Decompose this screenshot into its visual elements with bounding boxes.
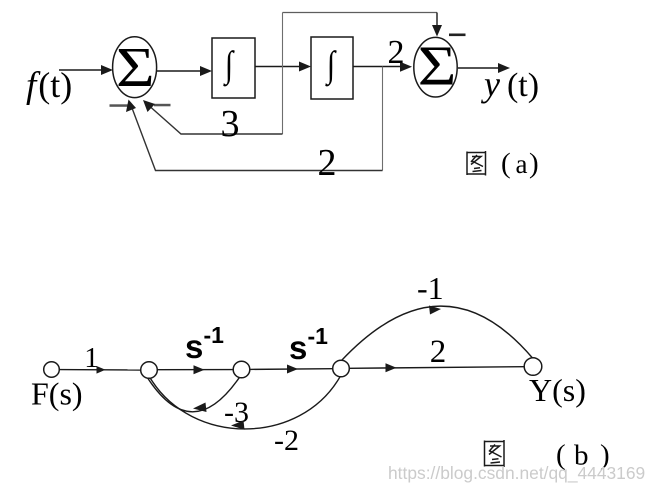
svg-text:F(s): F(s)	[31, 376, 83, 412]
node N5 Y(s)	[524, 358, 542, 376]
svg-text:-1: -1	[417, 270, 444, 306]
svg-text:-2: -2	[274, 424, 299, 457]
wire summer S1 to integrator block B1	[157, 66, 212, 76]
svg-text:a: a	[516, 149, 528, 179]
svg-text:https://blog.csdn.net/qq_44431: https://blog.csdn.net/qq_44431690	[388, 463, 645, 483]
svg-text:1: 1	[84, 342, 99, 374]
branch N2 to N3 gain s^-1	[157, 369, 233, 371]
wire B1 to B2	[255, 62, 311, 72]
minus sign top right of summer U2	[449, 34, 466, 37]
wire feedback 3 path	[146, 103, 283, 134]
wire feedback 2 bottom path	[131, 104, 383, 171]
wire output arrow from S2	[458, 63, 510, 73]
branch -1 curve N4 to N5 top	[342, 306, 533, 360]
branch N4 to N5 gain 2	[349, 367, 524, 369]
minus sign right below summer U1	[154, 104, 171, 107]
svg-text:2: 2	[430, 334, 447, 370]
branch N3 to N4 gain s^-1	[250, 368, 333, 371]
label figure a : CJK tu glyph drawn	[467, 151, 486, 176]
svg-text:-1: -1	[308, 323, 329, 349]
node N2	[141, 362, 158, 379]
summer U2 sigma ellipse	[414, 37, 457, 97]
wire drop into S2 top	[436, 13, 438, 30]
svg-text:2: 2	[388, 34, 405, 71]
svg-text:Σ: Σ	[116, 37, 155, 99]
minus sign left below summer U1	[110, 104, 131, 107]
svg-text:Y(s): Y(s)	[529, 372, 586, 408]
summer U2 sigma glyph	[418, 35, 457, 97]
node N4	[333, 360, 350, 377]
integrator B1 glyph	[223, 45, 236, 88]
summer U1 sigma ellipse	[113, 37, 157, 98]
wire B2 to summer S2	[353, 62, 412, 72]
branch -2 curve N4 to N2	[151, 377, 341, 429]
node N1 F(s)	[44, 362, 60, 378]
integrator block B2	[311, 37, 353, 99]
svg-text:s: s	[185, 328, 203, 365]
wire takeoff vertical at node between B1 and B2	[282, 13, 284, 135]
integrator block B1	[212, 38, 255, 98]
svg-text:(: (	[501, 148, 511, 180]
summer U1 sigma glyph	[116, 37, 155, 99]
svg-text:): )	[529, 148, 539, 180]
integrator B2 glyph	[325, 45, 338, 88]
svg-text:s: s	[289, 329, 307, 366]
label figure b : CJK tu glyph drawn	[485, 440, 505, 467]
node N3	[233, 361, 250, 378]
svg-text:-1: -1	[204, 322, 225, 348]
svg-text:Σ: Σ	[418, 35, 457, 97]
branch N1 to N2 gain 1	[59, 369, 140, 371]
svg-text:∫: ∫	[325, 45, 338, 88]
wire top feedforward horizontal to S2 top	[283, 12, 438, 14]
branch -3 curve N3 to N2	[148, 377, 240, 411]
svg-text:∫: ∫	[223, 45, 236, 88]
svg-text:2: 2	[318, 142, 337, 184]
wire input arrow to summer S1	[59, 65, 113, 75]
svg-text:f(t): f(t)	[26, 65, 72, 106]
svg-text:y(t): y(t)	[481, 64, 539, 104]
wire takeoff vertical after B2 down	[382, 67, 384, 171]
svg-text:3: 3	[221, 103, 240, 145]
